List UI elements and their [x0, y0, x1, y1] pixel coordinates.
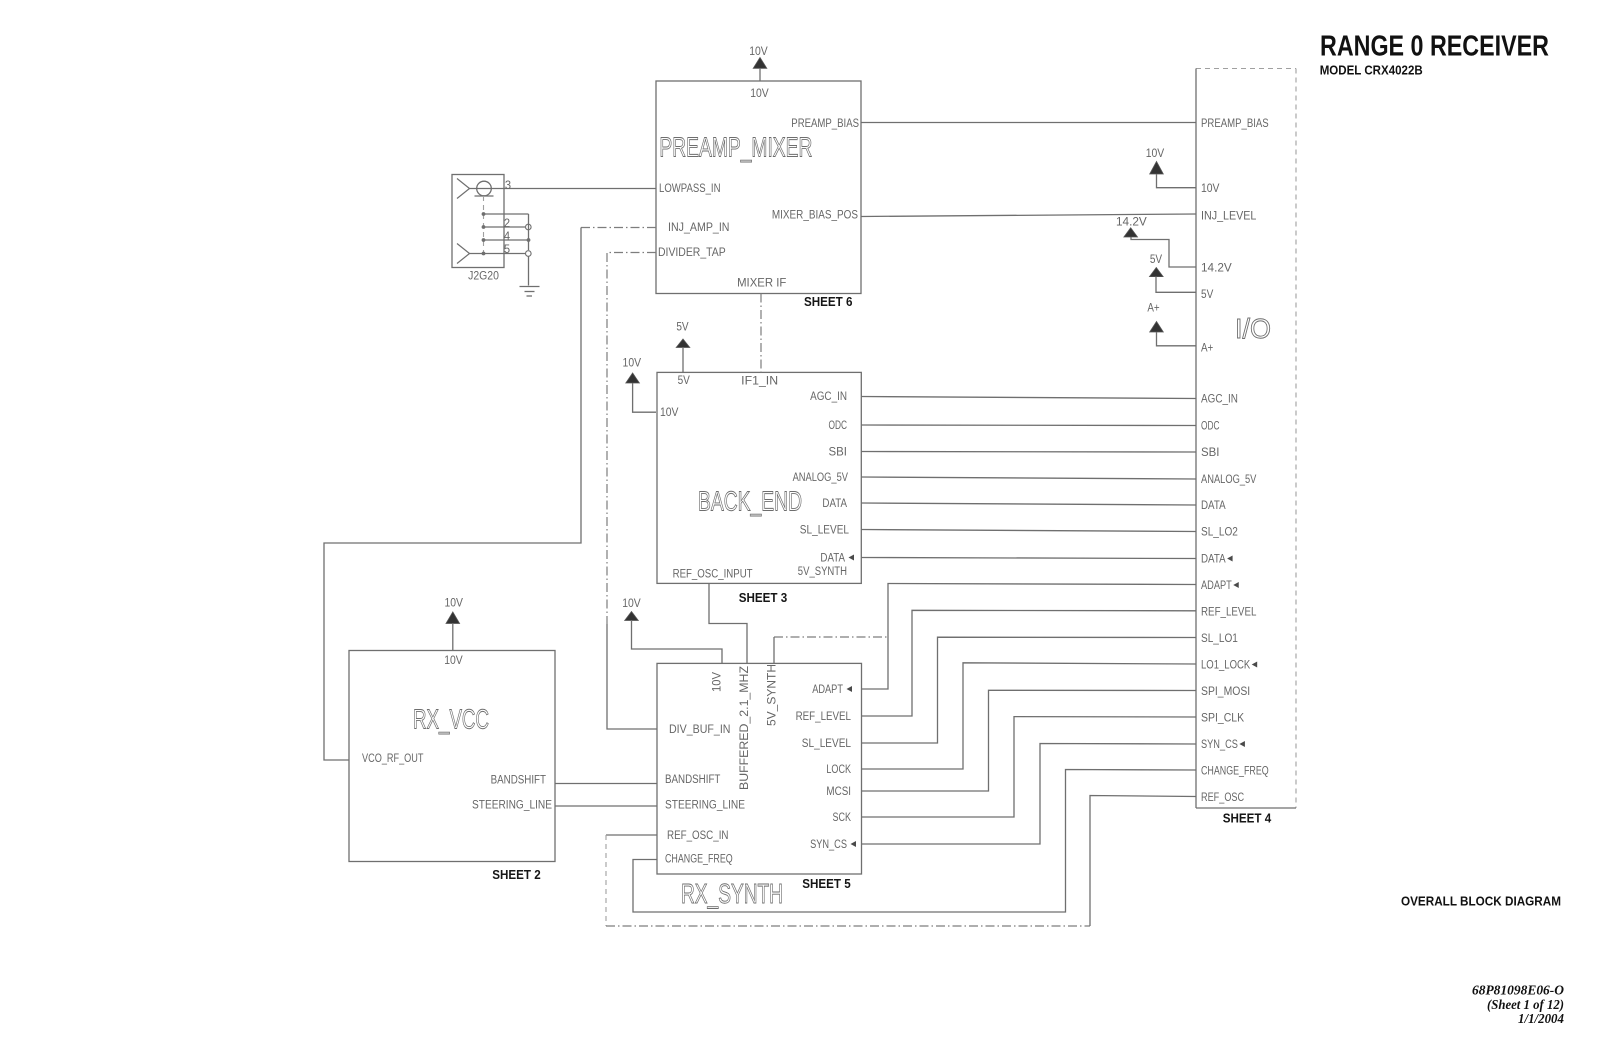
svg-text:SL_LO2: SL_LO2	[1201, 527, 1238, 539]
svg-text:A+: A+	[1201, 343, 1214, 355]
svg-text:2: 2	[504, 218, 510, 230]
svg-text:SL_LO1: SL_LO1	[1201, 633, 1238, 645]
svg-text:SBI: SBI	[1201, 447, 1220, 459]
svg-text:SBI: SBI	[829, 447, 848, 459]
svg-text:REF_OSC_IN: REF_OSC_IN	[667, 830, 729, 842]
svg-text:DATA: DATA	[820, 553, 845, 565]
svg-text:AGC_IN: AGC_IN	[1201, 394, 1238, 406]
svg-text:10V: 10V	[750, 88, 769, 100]
svg-text:REF_LEVEL: REF_LEVEL	[796, 711, 852, 723]
svg-text:SPI_MOSI: SPI_MOSI	[1201, 686, 1250, 698]
svg-text:ODC: ODC	[829, 420, 848, 432]
svg-text:INJ_AMP_IN: INJ_AMP_IN	[668, 222, 730, 234]
svg-text:5V: 5V	[678, 375, 691, 387]
svg-text:A+: A+	[1147, 303, 1160, 315]
svg-text:ADAPT: ADAPT	[812, 684, 843, 696]
svg-text:SHEET 5: SHEET 5	[802, 876, 851, 891]
svg-text:SYN_CS: SYN_CS	[1201, 739, 1238, 751]
svg-text:J2G20: J2G20	[468, 271, 499, 283]
svg-text:10V: 10V	[444, 598, 463, 610]
svg-text:PREAMP_MIXER: PREAMP_MIXER	[659, 132, 812, 163]
svg-text:10V: 10V	[623, 358, 642, 370]
svg-text:DATA: DATA	[1201, 554, 1226, 566]
svg-text:PREAMP_BIAS: PREAMP_BIAS	[1201, 118, 1269, 130]
svg-text:14.2V: 14.2V	[1201, 263, 1232, 275]
svg-text:SHEET 3: SHEET 3	[739, 590, 788, 605]
svg-text:DIV_BUF_IN: DIV_BUF_IN	[669, 724, 731, 736]
svg-text:4: 4	[504, 231, 511, 243]
svg-text:DATA: DATA	[1201, 500, 1226, 512]
svg-text:SL_LEVEL: SL_LEVEL	[802, 738, 852, 750]
svg-text:5: 5	[504, 244, 510, 256]
svg-text:REF_OSC: REF_OSC	[1201, 792, 1244, 804]
svg-text:RANGE 0 RECEIVER: RANGE 0 RECEIVER	[1320, 31, 1549, 63]
svg-text:(Sheet 1 of 12): (Sheet 1 of 12)	[1487, 998, 1564, 1013]
svg-text:5V_SYNTH: 5V_SYNTH	[798, 566, 847, 578]
svg-text:SL_LEVEL: SL_LEVEL	[800, 525, 850, 537]
svg-text:SPI_CLK: SPI_CLK	[1201, 713, 1244, 725]
svg-text:PREAMP_BIAS: PREAMP_BIAS	[791, 118, 859, 130]
svg-text:10V: 10V	[444, 655, 463, 667]
svg-text:10V: 10V	[660, 407, 679, 419]
svg-text:10V: 10V	[749, 46, 768, 58]
svg-text:SHEET 6: SHEET 6	[804, 294, 853, 309]
svg-text:10V: 10V	[1201, 183, 1220, 195]
svg-text:10V: 10V	[711, 672, 723, 692]
svg-text:REF_LEVEL: REF_LEVEL	[1201, 607, 1257, 619]
svg-text:ANALOG_5V: ANALOG_5V	[793, 472, 849, 484]
svg-text:AGC_IN: AGC_IN	[810, 391, 847, 403]
svg-text:BANDSHIFT: BANDSHIFT	[491, 775, 546, 787]
svg-text:STEERING_LINE: STEERING_LINE	[665, 800, 745, 812]
svg-text:BACK_END: BACK_END	[698, 486, 802, 517]
svg-text:SHEET 2: SHEET 2	[492, 867, 541, 882]
svg-text:INJ_LEVEL: INJ_LEVEL	[1201, 211, 1257, 223]
svg-text:LOCK: LOCK	[826, 764, 851, 776]
svg-text:MCSI: MCSI	[826, 786, 851, 798]
svg-text:RX_VCC: RX_VCC	[413, 704, 489, 735]
svg-text:10V: 10V	[1146, 148, 1165, 160]
svg-text:SYN_CS: SYN_CS	[810, 839, 847, 851]
svg-text:OVERALL BLOCK DIAGRAM: OVERALL BLOCK DIAGRAM	[1401, 894, 1561, 909]
svg-text:DATA: DATA	[822, 498, 847, 510]
svg-text:BANDSHIFT: BANDSHIFT	[665, 774, 720, 786]
svg-text:ADAPT: ADAPT	[1201, 580, 1232, 592]
svg-text:BUFFERED_2.1_MHZ: BUFFERED_2.1_MHZ	[739, 666, 751, 790]
svg-text:MIXER_BIAS_POS: MIXER_BIAS_POS	[772, 209, 858, 221]
svg-text:VCO_RF_OUT: VCO_RF_OUT	[362, 753, 424, 765]
svg-text:5V_SYNTH: 5V_SYNTH	[766, 664, 778, 726]
svg-text:1/1/2004: 1/1/2004	[1518, 1012, 1564, 1027]
svg-text:14.2V: 14.2V	[1116, 216, 1147, 228]
svg-text:3: 3	[505, 180, 511, 192]
svg-text:MODEL CRX4022B: MODEL CRX4022B	[1320, 63, 1423, 78]
svg-text:5V: 5V	[676, 322, 689, 334]
svg-text:SCK: SCK	[833, 812, 852, 824]
svg-text:LO1_LOCK: LO1_LOCK	[1201, 660, 1250, 672]
svg-text:CHANGE_FREQ: CHANGE_FREQ	[1201, 766, 1269, 778]
svg-text:DIVIDER_TAP: DIVIDER_TAP	[658, 247, 726, 259]
svg-text:10V: 10V	[622, 598, 641, 610]
svg-text:ANALOG_5V: ANALOG_5V	[1201, 474, 1257, 486]
svg-text:RX_SYNTH: RX_SYNTH	[681, 878, 783, 909]
svg-text:SHEET 4: SHEET 4	[1223, 811, 1272, 826]
svg-text:LOWPASS_IN: LOWPASS_IN	[659, 183, 721, 195]
svg-text:I/O: I/O	[1235, 313, 1271, 344]
svg-text:68P81098E06-O: 68P81098E06-O	[1472, 984, 1564, 999]
svg-text:ODC: ODC	[1201, 421, 1220, 433]
svg-text:5V: 5V	[1150, 254, 1163, 266]
svg-text:REF_OSC_INPUT: REF_OSC_INPUT	[673, 569, 753, 581]
svg-text:CHANGE_FREQ: CHANGE_FREQ	[665, 854, 733, 866]
svg-text:IF1_IN: IF1_IN	[741, 376, 778, 388]
svg-text:STEERING_LINE: STEERING_LINE	[472, 800, 552, 812]
svg-text:5V: 5V	[1201, 289, 1214, 301]
svg-text:MIXER IF: MIXER IF	[737, 278, 786, 290]
